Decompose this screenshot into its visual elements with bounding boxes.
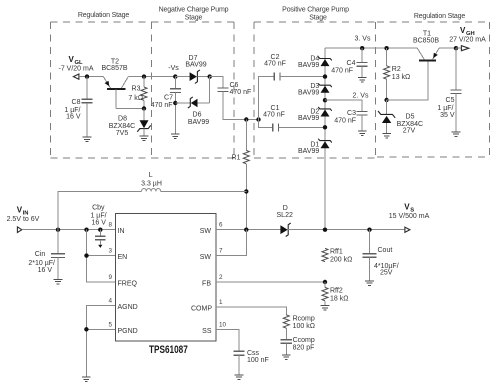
svg-text:Ccomp: Ccomp (293, 337, 315, 344)
wire SW pin7 (216, 230, 246, 256)
svg-text:FREQ: FREQ (118, 281, 138, 288)
svg-text:BAV99: BAV99 (298, 62, 319, 69)
svg-text:BC850B: BC850B (413, 37, 439, 44)
node R3 top dot (142, 74, 146, 78)
wire 2.Vs to C3 (325, 100, 362, 111)
zener D8 BZX84C 7V5 (143, 109, 145, 121)
svg-text:R3: R3 (132, 85, 141, 92)
svg-text:10: 10 (219, 321, 227, 328)
wire AGND/PGND (86, 306, 115, 378)
svg-text:3. Vs: 3. Vs (355, 36, 371, 43)
svg-text:3: 3 (108, 248, 112, 255)
svg-text:C4: C4 (347, 60, 356, 67)
svg-text:15 V/500 mA: 15 V/500 mA (389, 213, 430, 220)
svg-text:C5: C5 (446, 97, 455, 104)
capacitor C4 (361, 48, 363, 62)
node VIN terminal arrow (17, 227, 21, 233)
node VS terminal arrow (405, 227, 410, 232)
box Regulation Stage left (dashed) (50, 21, 151, 23)
svg-text:9: 9 (108, 274, 112, 281)
svg-text:470 nF: 470 nF (230, 89, 252, 96)
resistor Rff1 200k (322, 248, 328, 261)
svg-text:BAV99: BAV99 (185, 62, 206, 69)
wire charge pump diode chain (324, 48, 326, 230)
svg-text:1 µF/: 1 µF/ (437, 105, 453, 112)
svg-text:16 V: 16 V (38, 267, 53, 274)
svg-text:27 V/20 mA: 27 V/20 mA (449, 36, 486, 43)
wire FB pin2 (216, 281, 325, 283)
node VS/diode-chain dot (323, 228, 327, 232)
svg-text:2*10 µF/: 2*10 µF/ (28, 260, 55, 267)
diode D3 BAV99 (318, 83, 332, 93)
svg-text:BAV99: BAV99 (298, 90, 319, 97)
svg-text:820 pF: 820 pF (293, 345, 315, 352)
svg-text:Stage: Stage (185, 14, 203, 21)
svg-text:-Vs: -Vs (168, 65, 179, 72)
box Regulation Stage right (dashed) (377, 21, 490, 23)
node D2/D1 dot (323, 125, 327, 129)
resistor Rcomp 100k (283, 315, 289, 328)
svg-text:Rff2: Rff2 (330, 287, 343, 294)
svg-text:BAV99: BAV99 (298, 115, 319, 122)
capacitor C6 (210, 77, 223, 88)
svg-text:SS: SS (202, 328, 212, 335)
wire collector to -Vs rail (128, 76, 175, 78)
svg-text:100 kΩ: 100 kΩ (293, 323, 315, 330)
svg-text:470 nF: 470 nF (264, 60, 286, 67)
svg-text:Regulation Stage: Regulation Stage (78, 12, 130, 19)
node D7 cathode dot (208, 74, 212, 78)
svg-text:18 kΩ: 18 kΩ (330, 295, 348, 302)
diode D6 BAV99 (175, 102, 190, 104)
svg-text:R2: R2 (392, 66, 401, 73)
node VGH terminal arrow (456, 47, 461, 49)
node R2/D5/base dot (384, 98, 388, 102)
node EN branch dot (84, 228, 88, 232)
node base/R3/D8 dot (142, 106, 146, 110)
svg-text:Positive Charge Pump: Positive Charge Pump (282, 6, 349, 13)
svg-text:470 nF: 470 nF (151, 102, 173, 109)
svg-text:Negative Charge Pump: Negative Charge Pump (159, 6, 229, 13)
node R1 top dot (244, 117, 248, 121)
svg-text:200 kΩ: 200 kΩ (330, 256, 352, 263)
svg-text:7V5: 7V5 (116, 130, 129, 137)
ground below C8 (83, 137, 92, 142)
wire base T1 (387, 61, 429, 100)
capacitor Cin (57, 230, 59, 254)
capacitor C3 (357, 111, 368, 113)
svg-text:IN: IN (118, 228, 125, 235)
svg-text:2.5V to 6V: 2.5V to 6V (7, 216, 40, 223)
capacitor Css 100nF (233, 350, 244, 352)
svg-text:SW: SW (200, 228, 212, 235)
svg-text:470 nF: 470 nF (331, 67, 353, 74)
capacitor C7 (174, 77, 176, 89)
capacitor C8 (86, 77, 88, 100)
svg-text:Cby: Cby (92, 205, 105, 212)
svg-text:1: 1 (219, 299, 223, 306)
svg-text:SL22: SL22 (277, 212, 293, 219)
capacitor Ccomp 820pF (281, 339, 292, 341)
svg-text:Stage: Stage (309, 14, 327, 21)
svg-text:R1: R1 (232, 155, 241, 162)
svg-text:35 V: 35 V (440, 112, 455, 119)
svg-text:D6: D6 (193, 111, 202, 118)
svg-text:16 V: 16 V (91, 220, 106, 227)
svg-text:100 nF: 100 nF (247, 357, 269, 364)
resistor R2 13k (386, 48, 388, 66)
svg-text:27V: 27V (403, 128, 416, 135)
svg-text:7 kΩ: 7 kΩ (128, 95, 143, 102)
svg-text:2. Vs: 2. Vs (353, 92, 369, 99)
node VGL junction dot (85, 74, 89, 78)
node C4 dot (360, 46, 364, 50)
resistor Rff2 18k (324, 282, 326, 287)
node VGH dot (454, 46, 458, 50)
svg-text:16 V: 16 V (66, 114, 81, 121)
svg-text:Rcomp: Rcomp (293, 315, 315, 322)
wire SS pin10 (216, 329, 239, 351)
svg-text:8: 8 (108, 222, 112, 229)
svg-text:2: 2 (219, 274, 223, 281)
svg-text:13 kΩ: 13 kΩ (392, 74, 410, 81)
node R2 top dot (384, 46, 388, 50)
wire VGL rail (79, 76, 104, 78)
svg-text:FB: FB (202, 281, 211, 288)
wire EN/FREQ (87, 230, 116, 282)
svg-text:COMP: COMP (191, 306, 212, 313)
wire SW pin6 (216, 229, 281, 231)
capacitor Cby (98, 228, 102, 232)
svg-text:C3: C3 (347, 110, 356, 117)
node -Vs dot (173, 74, 177, 78)
capacitor C5 (455, 48, 457, 90)
diode D2 BAV99 (318, 107, 332, 117)
resistor R1 (245, 120, 247, 151)
svg-text:470 nF: 470 nF (263, 111, 285, 118)
svg-text:470 nF: 470 nF (334, 118, 356, 125)
node VGL terminal arrow (73, 74, 79, 79)
svg-text:25V: 25V (380, 270, 393, 277)
svg-text:6: 6 (219, 222, 223, 229)
svg-text:EN: EN (118, 254, 128, 261)
box Negative Charge Pump Stage (dashed) (151, 21, 234, 23)
svg-text:BAV99: BAV99 (298, 148, 319, 155)
wire COMP pin1 (216, 307, 286, 315)
capacitor Cout (369, 230, 371, 254)
svg-text:C7: C7 (164, 95, 173, 102)
svg-text:BAV99: BAV99 (188, 119, 209, 126)
node C7/D6 dot (173, 101, 177, 105)
node D4/D3 dot (323, 74, 327, 78)
ground below C7 (171, 134, 180, 139)
node L/R1 dot (244, 189, 248, 193)
box Positive Charge Pump Stage (dashed) (254, 21, 375, 23)
svg-text:BZX84C: BZX84C (109, 123, 135, 130)
svg-text:BC857B: BC857B (101, 65, 127, 72)
svg-text:SW: SW (200, 254, 212, 261)
svg-text:D5: D5 (406, 113, 415, 120)
node VIN/L/Cin dot (56, 228, 60, 232)
node Cout dot (367, 228, 371, 232)
IC U1 TPS61087 (116, 214, 217, 342)
svg-text:Cin: Cin (35, 251, 46, 258)
svg-text:D8: D8 (118, 116, 127, 123)
svg-text:TPS61087: TPS61087 (149, 344, 188, 356)
svg-text:1 µF/: 1 µF/ (90, 212, 106, 219)
svg-text:AGND: AGND (118, 304, 138, 311)
wire VIN rail (22, 229, 115, 231)
node D3/D2 dot (2.Vs) (323, 98, 327, 102)
diode D4 BAV99 (318, 57, 332, 67)
svg-text:-7 V/20 mA: -7 V/20 mA (58, 65, 93, 72)
resistor R3 7k (143, 77, 145, 87)
wire -Vs rail to D7 (175, 76, 190, 78)
diode D1 BAV99 (318, 139, 332, 149)
svg-text:3.3 µH: 3.3 µH (141, 180, 162, 187)
svg-text:L: L (149, 172, 153, 179)
svg-text:4: 4 (108, 298, 112, 305)
ground AGND/PGND (82, 377, 91, 382)
svg-text:5: 5 (108, 321, 112, 328)
node FB dot (323, 280, 327, 284)
svg-text:Regulation Stage: Regulation Stage (414, 13, 466, 20)
node SW junction dot (244, 228, 248, 232)
zener D5 BZX84C 27V (386, 100, 388, 114)
svg-text:PGND: PGND (118, 328, 138, 335)
svg-text:Rff1: Rff1 (330, 249, 343, 256)
svg-text:Cout: Cout (378, 247, 393, 254)
node C2/C1 branch dot (256, 117, 260, 121)
svg-text:7: 7 (219, 248, 223, 255)
wire top rail to regulation stage (325, 47, 417, 49)
svg-text:Css: Css (247, 350, 260, 357)
svg-text:C8: C8 (72, 99, 81, 106)
